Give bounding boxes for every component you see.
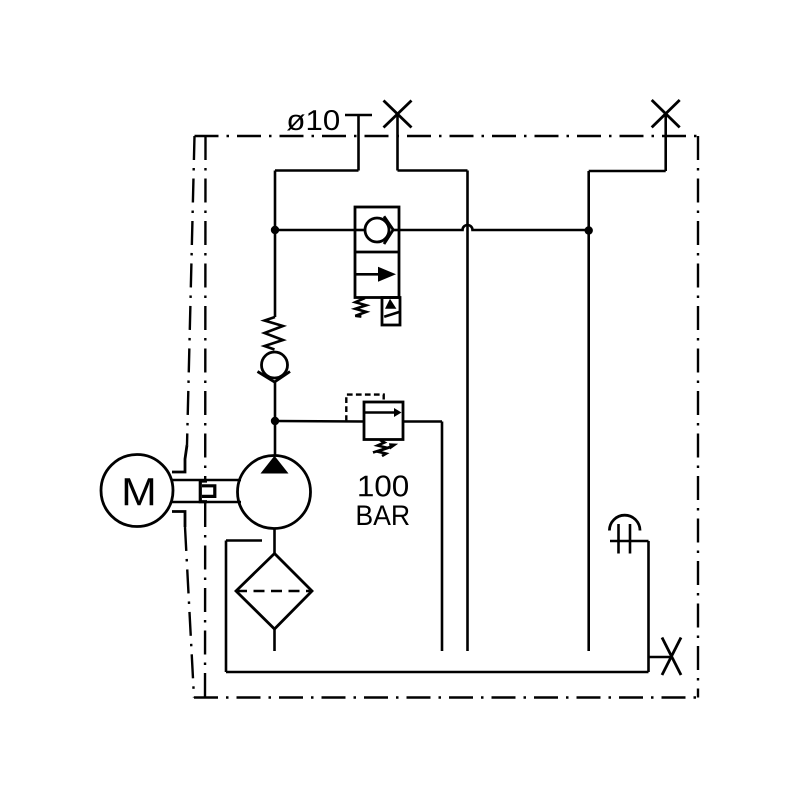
motor M letter bbox=[125, 478, 154, 505]
pump circle bbox=[238, 456, 311, 529]
coupling claw right bbox=[202, 486, 215, 497]
enclosure left border inner lower bbox=[204, 503, 207, 698]
wire X1 to column A bbox=[398, 169, 468, 172]
valve V1 divider bbox=[355, 251, 399, 254]
junction dot P bbox=[271, 417, 279, 425]
wire seat to junction P bbox=[274, 382, 277, 421]
wire left riser bbox=[274, 171, 277, 231]
enclosure left border inner upper bbox=[204, 136, 207, 479]
wire riser to check valve spring bbox=[274, 230, 277, 317]
wire X2 to column B bbox=[589, 170, 666, 173]
drain plug X3 bbox=[662, 638, 681, 676]
breather prong right bbox=[629, 524, 632, 554]
enclosure bottom border bbox=[194, 696, 698, 698]
check valve CV ball bbox=[262, 352, 288, 378]
junction dot B bbox=[585, 226, 593, 234]
pump triangle bbox=[261, 456, 289, 474]
tank bottom bbox=[226, 671, 649, 674]
enclosure left border outer upper bbox=[187, 136, 195, 445]
label o10 test point bbox=[287, 110, 339, 131]
label 100 bbox=[359, 475, 408, 496]
motor mount upper bracket bbox=[172, 445, 187, 472]
coupling shaft bottom bbox=[172, 501, 242, 504]
valve V1 solenoid slash bbox=[384, 312, 399, 317]
coupling shaft top bbox=[172, 479, 242, 482]
check valve CV spring bbox=[265, 317, 284, 350]
test point stem bbox=[357, 115, 360, 171]
check valve CV seat bbox=[258, 372, 291, 383]
label BAR bbox=[358, 506, 409, 526]
wire junction P to pump bbox=[274, 421, 277, 456]
filter outlet stub bbox=[273, 629, 276, 651]
motor mount lower bracket bbox=[172, 512, 185, 528]
valve V1 cell line right bbox=[393, 229, 400, 232]
relief valve RV arrow bbox=[365, 411, 395, 414]
valve V1 solenoid triangle bbox=[385, 299, 396, 309]
plugged port X2 bbox=[652, 100, 680, 127]
tank right wall bbox=[647, 541, 650, 672]
test point plug bar bbox=[345, 114, 372, 117]
relief valve RV outlet bbox=[403, 420, 442, 423]
main pressure line right with hop over column A bbox=[399, 225, 589, 230]
valve V1 spring bbox=[355, 298, 366, 317]
relief valve RV body bbox=[364, 402, 403, 440]
wire column B bbox=[587, 171, 590, 651]
enclosure right border bbox=[697, 136, 699, 698]
valve V1 check seat bbox=[384, 216, 393, 244]
enclosure top border bbox=[195, 135, 699, 137]
main pressure line left bbox=[275, 229, 355, 232]
breather prong left bbox=[617, 524, 620, 554]
pump suction line bbox=[273, 528, 276, 554]
wire relief feed bbox=[275, 420, 364, 423]
X1 stem bbox=[396, 114, 399, 171]
wire column A bbox=[466, 171, 469, 652]
enclosure left border outer lower bbox=[185, 527, 194, 698]
valve V1 cell line left bbox=[355, 229, 366, 232]
motor M circle bbox=[101, 455, 173, 527]
relief valve RV spring bbox=[377, 440, 388, 456]
filter element dashed bbox=[236, 590, 312, 593]
coupling claw left bbox=[200, 481, 207, 502]
relief valve RV adjust arrow bbox=[373, 446, 392, 452]
relief valve RV pilot line bbox=[346, 395, 383, 421]
valve V1 solenoid box bbox=[382, 298, 400, 326]
tank left wall bbox=[225, 541, 228, 673]
filter body bbox=[236, 554, 312, 630]
X2 stem bbox=[664, 114, 667, 171]
valve V1 flow arrow bbox=[356, 273, 380, 276]
breather bar bbox=[610, 540, 649, 543]
breather cap arc bbox=[609, 515, 640, 530]
drain stub bbox=[649, 656, 672, 659]
plugged port X1 bbox=[384, 101, 412, 128]
valve V1 check ball bbox=[365, 218, 389, 242]
valve V1 body bbox=[355, 207, 399, 298]
junction dot left bbox=[271, 226, 279, 234]
wire top corridor left bbox=[275, 169, 359, 172]
relief valve RV tank line bbox=[441, 422, 444, 652]
tank rim stub bbox=[226, 539, 262, 542]
